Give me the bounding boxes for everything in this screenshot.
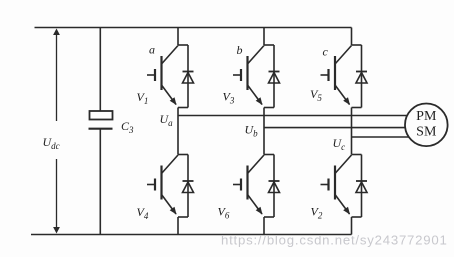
wire: output line Uc from phase-c midpoint to motor [352, 136, 411, 138]
wire: phase-a midpoint leg (upper cell to lower cell) [177, 108, 179, 155]
wire: phase-c leg, DC+ bus to upper cell [351, 28, 353, 46]
wire: DC- bus (bottom rail) [31, 234, 352, 236]
svg-text:PM: PM [416, 109, 437, 124]
wire: upper cell of phase c (collector/emitter rails and diode branch) [352, 45, 362, 108]
wire: upper cell of phase b (collector/emitter rails and diode branch) [264, 45, 274, 108]
IGBT V6 (lower switch, phase b) [233, 155, 264, 215]
svg-text:https://blog.csdn.net/sy243772: https://blog.csdn.net/sy243772901 [221, 233, 448, 248]
freewheel diode across V5 [356, 72, 367, 84]
svg-text:c: c [323, 45, 329, 59]
IGBT V1 (upper switch, phase a) [147, 46, 178, 106]
svg-text:a: a [149, 43, 155, 57]
IGBT V2 (lower switch, phase c) [321, 155, 352, 215]
wire: phase-a leg, lower cell to DC- bus [177, 217, 179, 235]
wire: lower cell of phase c (collector/emitter rails and diode branch) [352, 155, 362, 218]
wire: lower cell of phase a (collector/emitter rails and diode branch) [178, 155, 188, 218]
freewheel diode across V4 [183, 181, 194, 193]
wire: phase-c midpoint leg (upper cell to lower cell) [351, 108, 353, 155]
freewheel diode across V6 [269, 181, 280, 193]
svg-text:b: b [237, 43, 243, 57]
wire: DC+ bus (top rail) [35, 27, 352, 29]
wire: phase-a leg, DC+ bus to upper cell [177, 28, 179, 46]
Udc measurement arrow (double-headed, between DC rails) [53, 29, 60, 234]
wire: output line Ub from phase-b midpoint to motor [264, 127, 410, 129]
freewheel diode across V3 [269, 72, 280, 84]
wire: phase-b midpoint leg (upper cell to lower cell) [263, 108, 265, 155]
freewheel diode across V1 [183, 72, 194, 84]
svg-text:SM: SM [416, 125, 437, 140]
capacitor C3 (DC-link electrolytic capacitor) [89, 28, 113, 235]
wire: lower cell of phase b (collector/emitter rails and diode branch) [264, 155, 274, 218]
IGBT V3 (upper switch, phase b) [233, 46, 264, 106]
wire: phase-b leg, lower cell to DC- bus [263, 217, 265, 235]
IGBT V4 (lower switch, phase a) [147, 155, 178, 215]
motor PMSM (circle with PM / SM) [405, 104, 448, 147]
wire: upper cell of phase a (collector/emitter rails and diode branch) [178, 45, 188, 108]
wire: phase-b leg, DC+ bus to upper cell [263, 28, 265, 46]
freewheel diode across V2 [356, 181, 367, 193]
wire: phase-c leg, lower cell to DC- bus [351, 217, 353, 235]
wire: output line Ua from phase-a midpoint to motor [178, 115, 410, 117]
IGBT V5 (upper switch, phase c) [321, 46, 352, 106]
